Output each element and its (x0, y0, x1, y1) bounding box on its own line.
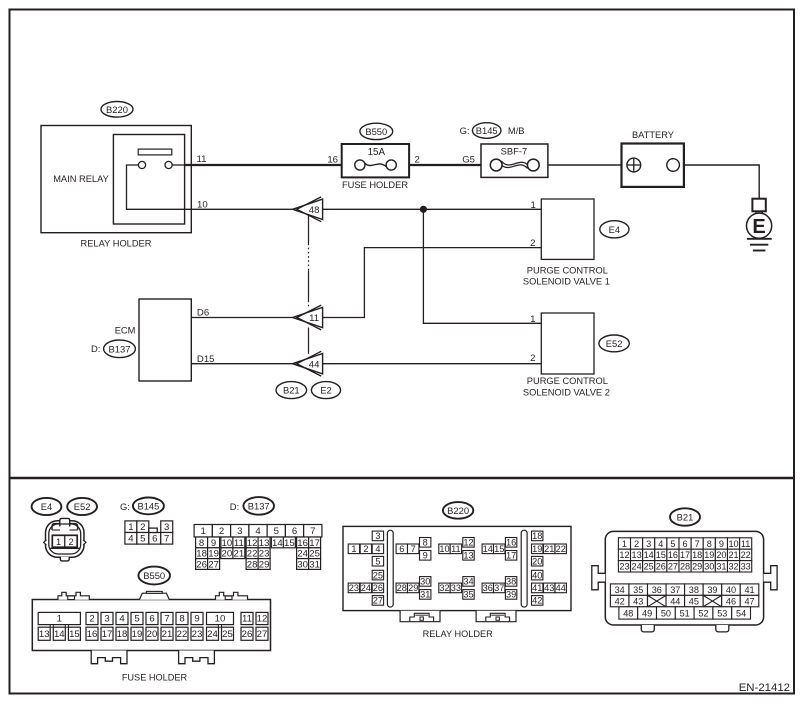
ECM box (139, 299, 191, 381)
svg-text:4: 4 (128, 534, 134, 545)
svg-text:25: 25 (373, 570, 383, 580)
svg-text:24: 24 (361, 583, 371, 593)
connector oval E4 (top) (600, 221, 629, 238)
svg-text:26: 26 (242, 629, 253, 640)
svg-text:1: 1 (201, 526, 206, 537)
svg-text:B137: B137 (109, 343, 131, 354)
svg-text:14: 14 (483, 544, 493, 554)
svg-text:B550: B550 (365, 126, 387, 137)
svg-text:7: 7 (164, 614, 169, 625)
connector label G: B145 (top) (460, 125, 470, 136)
SBF terminal right (527, 159, 539, 171)
svg-text:11: 11 (741, 539, 750, 549)
relay holder bottom tab left (400, 611, 440, 622)
svg-text:12: 12 (257, 614, 268, 625)
slow blow fuse SBF-7 symbol wavy link (500, 161, 528, 168)
connector oval E52 (top) (599, 335, 629, 352)
connector oval B550 (top) (360, 123, 393, 139)
svg-text:29: 29 (408, 583, 418, 593)
svg-text:17: 17 (102, 629, 113, 640)
svg-text:G:: G: (460, 125, 470, 136)
svg-text:26: 26 (656, 562, 666, 572)
svg-text:31: 31 (420, 590, 430, 600)
svg-text:B137: B137 (248, 500, 270, 511)
svg-text:9: 9 (423, 551, 428, 561)
svg-text:41: 41 (532, 583, 542, 593)
svg-text:E52: E52 (74, 501, 91, 512)
svg-text:29: 29 (692, 562, 702, 572)
svg-text:18: 18 (196, 549, 207, 560)
connector label D: B137 (top) (91, 343, 100, 354)
svg-text:48: 48 (623, 608, 633, 618)
svg-text:FUSE HOLDER: FUSE HOLDER (342, 180, 408, 190)
svg-text:2: 2 (634, 539, 639, 549)
main relay inner box (113, 135, 184, 225)
svg-text:19: 19 (704, 550, 714, 560)
svg-text:33: 33 (451, 583, 461, 593)
svg-text:21: 21 (544, 544, 554, 554)
svg-text:13: 13 (463, 551, 473, 561)
purge control solenoid valve 1 box (541, 199, 594, 259)
B220 divider bar left (387, 530, 393, 607)
svg-text:37: 37 (494, 583, 504, 593)
svg-text:27: 27 (257, 629, 268, 640)
svg-text:27: 27 (373, 596, 383, 606)
fuse F1 15A symbol (364, 163, 387, 168)
B21 bottom tab right (716, 625, 729, 632)
svg-text:3: 3 (375, 531, 380, 541)
svg-text:6: 6 (152, 534, 157, 545)
svg-text:16: 16 (327, 155, 338, 166)
svg-text:1: 1 (57, 614, 62, 625)
B21 side bracket right (764, 566, 778, 590)
svg-text:23: 23 (259, 549, 270, 560)
svg-text:47: 47 (744, 596, 754, 606)
svg-text:21: 21 (234, 549, 245, 560)
svg-text:ECM: ECM (115, 325, 136, 335)
svg-text:6: 6 (149, 614, 154, 625)
svg-text:30: 30 (420, 577, 430, 587)
connector oval E2 (top) (311, 382, 340, 399)
svg-text:2: 2 (219, 526, 224, 537)
B220 divider bar right (521, 530, 527, 607)
inline connector arrow 11 (293, 305, 323, 330)
svg-text:15: 15 (656, 550, 666, 560)
battery box (622, 144, 684, 187)
svg-text:7: 7 (411, 544, 416, 554)
svg-text:12: 12 (463, 538, 473, 548)
svg-text:SOLENOID VALVE 2: SOLENOID VALVE 2 (523, 388, 610, 398)
svg-text:18: 18 (692, 550, 702, 560)
svg-text:24: 24 (297, 549, 308, 560)
svg-text:4: 4 (255, 526, 261, 537)
svg-text:22: 22 (247, 549, 258, 560)
svg-text:31: 31 (716, 562, 726, 572)
svg-text:43: 43 (544, 583, 554, 593)
svg-text:1: 1 (128, 522, 133, 533)
svg-text:7: 7 (310, 526, 315, 537)
inline connector arrow 48 (293, 197, 323, 222)
inline connector arrow 44 (293, 351, 323, 376)
svg-text:9: 9 (211, 538, 216, 549)
svg-text:E: E (752, 216, 765, 238)
svg-text:15A: 15A (368, 147, 386, 158)
svg-text:38: 38 (506, 577, 516, 587)
E4/E52 connector face drawing (44, 518, 86, 561)
fuse holder box (342, 144, 409, 177)
svg-text:13: 13 (632, 550, 642, 560)
svg-text:2: 2 (530, 353, 535, 364)
svg-text:20: 20 (532, 557, 542, 567)
svg-text:36: 36 (483, 583, 493, 593)
svg-text:5: 5 (274, 526, 279, 537)
svg-text:E4: E4 (41, 501, 52, 512)
relay holder outer box (41, 126, 191, 233)
svg-text:28: 28 (680, 562, 690, 572)
svg-text:3: 3 (104, 614, 109, 625)
svg-text:4: 4 (375, 544, 380, 554)
svg-text:16: 16 (506, 538, 516, 548)
fuse holder top tab left (58, 592, 89, 599)
svg-text:23: 23 (349, 583, 359, 593)
connector oval B550 (bottom) (138, 567, 170, 585)
wire: junction down to solenoid valve 2 pin 1 (423, 209, 541, 323)
svg-text:29: 29 (259, 559, 270, 570)
svg-text:EN-21412: EN-21412 (739, 682, 790, 694)
battery negative terminal (667, 159, 680, 172)
svg-text:42: 42 (532, 596, 542, 606)
svg-text:E52: E52 (606, 338, 623, 349)
svg-text:6: 6 (683, 539, 688, 549)
svg-text:3: 3 (237, 526, 242, 537)
svg-text:25: 25 (222, 629, 233, 640)
svg-text:E4: E4 (609, 224, 620, 235)
svg-text:10: 10 (728, 539, 738, 549)
svg-text:17: 17 (309, 538, 320, 549)
svg-text:15: 15 (69, 629, 80, 640)
svg-text:25: 25 (309, 549, 320, 560)
connector label G: B145 (bottom) (120, 501, 130, 512)
svg-text:B21: B21 (677, 512, 694, 523)
svg-text:B145: B145 (476, 125, 498, 136)
svg-text:12: 12 (247, 538, 258, 549)
svg-text:34: 34 (615, 585, 625, 595)
svg-text:54: 54 (736, 608, 746, 618)
svg-text:6: 6 (292, 526, 297, 537)
connector oval B220 (bottom) (443, 502, 473, 519)
connector oval B21 (bottom) (670, 508, 700, 525)
svg-text:20: 20 (222, 549, 233, 560)
svg-text:2: 2 (530, 238, 535, 249)
svg-text:19: 19 (532, 544, 542, 554)
B21 bottom tab left (641, 625, 654, 632)
svg-text:24: 24 (207, 629, 218, 640)
svg-text:15: 15 (284, 538, 295, 549)
fuse holder pin cells (38, 612, 268, 640)
svg-text:50: 50 (661, 608, 671, 618)
svg-text:B220: B220 (106, 104, 128, 115)
B21 middle pin grid pins 34-47 (610, 584, 758, 607)
svg-text:BATTERY: BATTERY (632, 130, 674, 140)
svg-text:44: 44 (309, 359, 320, 370)
ground E symbol (747, 199, 772, 251)
connector oval B21 (top) (276, 382, 307, 399)
svg-text:5: 5 (670, 539, 675, 549)
svg-text:14: 14 (54, 629, 65, 640)
svg-text:35: 35 (633, 585, 643, 595)
svg-text:PURGE CONTROL: PURGE CONTROL (527, 376, 608, 386)
svg-text:22: 22 (741, 550, 751, 560)
svg-text:B550: B550 (143, 570, 165, 581)
svg-text:8: 8 (199, 538, 204, 549)
svg-text:13: 13 (39, 629, 50, 640)
svg-text:26: 26 (196, 559, 207, 570)
svg-text:24: 24 (632, 562, 642, 572)
svg-text:17: 17 (680, 550, 690, 560)
relay holder bottom tab right (476, 611, 516, 622)
svg-text:1: 1 (530, 314, 535, 325)
purge control solenoid valve 2 box (541, 313, 594, 374)
svg-text:D:: D: (91, 343, 100, 354)
svg-text:40: 40 (726, 585, 736, 595)
svg-text:MAIN RELAY: MAIN RELAY (53, 174, 109, 184)
svg-text:2: 2 (68, 537, 73, 547)
svg-text:42: 42 (615, 596, 625, 606)
svg-text:8: 8 (179, 614, 184, 625)
svg-text:10: 10 (439, 544, 449, 554)
svg-text:32: 32 (728, 562, 738, 572)
connector oval B220 (top) (101, 102, 133, 118)
svg-text:D:: D: (230, 501, 239, 512)
svg-text:45: 45 (689, 596, 699, 606)
svg-text:48: 48 (309, 205, 320, 216)
svg-text:FUSE HOLDER: FUSE HOLDER (122, 672, 188, 682)
wire: battery to ground corner (684, 165, 759, 199)
wire: main relay pin11 to fuse holder (bold power wire) (172, 164, 185, 166)
fuse holder top tab middle (139, 591, 169, 599)
svg-text:14: 14 (644, 550, 654, 560)
svg-text:16: 16 (668, 550, 678, 560)
fuse holder bottom tab left (91, 651, 127, 664)
svg-text:41: 41 (744, 585, 754, 595)
wire: fuse holder to SBF-7 (bold power wire) (409, 164, 481, 166)
wire: SBF-7 to battery (548, 164, 622, 166)
svg-text:22: 22 (556, 544, 566, 554)
B21 side bracket left (592, 566, 606, 590)
svg-text:25: 25 (644, 562, 654, 572)
svg-text:18: 18 (532, 531, 542, 541)
svg-text:7: 7 (695, 539, 700, 549)
battery positive terminal (627, 158, 641, 172)
svg-text:B145: B145 (137, 500, 159, 511)
relay coil bar (138, 149, 172, 155)
relay contact terminal left (138, 161, 145, 168)
svg-text:11: 11 (309, 313, 319, 324)
svg-text:23: 23 (619, 562, 629, 572)
svg-text:38: 38 (689, 585, 699, 595)
section divider line (10, 477, 795, 480)
svg-text:B220: B220 (447, 505, 469, 516)
svg-text:B21: B21 (283, 385, 300, 396)
svg-text:11: 11 (234, 538, 244, 549)
svg-text:5: 5 (134, 614, 139, 625)
svg-text:10: 10 (222, 538, 233, 549)
svg-text:44: 44 (556, 583, 566, 593)
B21 top pin grid pins 1-33 (618, 538, 751, 572)
svg-text:10: 10 (215, 614, 226, 625)
wire: connector stack vertical 48-11 (part solid part dotted) (308, 216, 310, 244)
connector B137 pin grid (194, 525, 322, 571)
svg-text:49: 49 (642, 608, 652, 618)
connector label D: B137 (bottom) (230, 501, 239, 512)
svg-text:1: 1 (56, 537, 61, 547)
fuse holder bottom tab right (179, 651, 215, 664)
svg-text:16: 16 (297, 538, 308, 549)
svg-text:2: 2 (415, 155, 420, 166)
svg-text:3: 3 (164, 522, 169, 533)
connector B145 pin grid (125, 521, 173, 545)
wire: connector stack vertical 11-44 (308, 328, 310, 354)
relay holder connector body (343, 526, 571, 610)
junction node at valve1 branch (420, 206, 426, 212)
wire: relay pin10 / solenoid valve 1 pin 1 net (191, 208, 541, 210)
svg-text:51: 51 (680, 608, 690, 618)
svg-text:16: 16 (87, 629, 98, 640)
svg-text:44: 44 (670, 596, 680, 606)
svg-text:22: 22 (177, 629, 188, 640)
fuse holder connector body (32, 600, 270, 651)
wire: ECM D6 through connector 11 up to valve 1 pin 2 (191, 248, 541, 318)
svg-text:12: 12 (619, 550, 629, 560)
svg-text:G:: G: (120, 501, 130, 512)
fuse terminal right (386, 160, 396, 170)
svg-text:SBF-7: SBF-7 (501, 146, 528, 157)
svg-text:5: 5 (375, 557, 380, 567)
SBF-7 fuse box (481, 144, 548, 177)
svg-text:G5: G5 (462, 155, 475, 166)
svg-text:4: 4 (658, 539, 663, 549)
svg-text:1: 1 (530, 200, 535, 211)
svg-text:1: 1 (622, 539, 627, 549)
svg-text:19: 19 (208, 549, 219, 560)
svg-text:SOLENOID VALVE 1: SOLENOID VALVE 1 (523, 277, 610, 287)
svg-text:18: 18 (117, 629, 128, 640)
svg-text:31: 31 (309, 559, 320, 570)
svg-text:2: 2 (363, 544, 368, 554)
svg-text:19: 19 (132, 629, 143, 640)
svg-text:D15: D15 (197, 354, 215, 365)
svg-text:32: 32 (439, 583, 449, 593)
svg-text:RELAY HOLDER: RELAY HOLDER (81, 238, 152, 248)
svg-text:33: 33 (741, 562, 751, 572)
label PURGE CONTROL SOLENOID VALVE 1 (523, 265, 610, 286)
wire: ECM D15 through connector 44 to valve 2 pin 2 (191, 363, 541, 365)
svg-text:15: 15 (494, 544, 504, 554)
svg-text:14: 14 (272, 538, 283, 549)
svg-text:9: 9 (719, 539, 724, 549)
svg-text:11: 11 (242, 614, 252, 625)
svg-text:2: 2 (140, 522, 145, 533)
svg-text:28: 28 (247, 559, 258, 570)
svg-text:27: 27 (668, 562, 678, 572)
svg-text:20: 20 (716, 550, 726, 560)
svg-text:46: 46 (726, 596, 736, 606)
svg-text:17: 17 (506, 551, 516, 561)
relay contact terminal right (165, 161, 172, 168)
svg-text:30: 30 (297, 559, 308, 570)
B21 bottom pin row pins 48-54 (619, 607, 751, 619)
svg-text:4: 4 (119, 614, 125, 625)
svg-text:M/B: M/B (508, 125, 525, 136)
svg-text:8: 8 (707, 539, 712, 549)
SBF terminal left (490, 159, 502, 171)
svg-text:39: 39 (506, 590, 516, 600)
svg-text:37: 37 (670, 585, 680, 595)
svg-text:21: 21 (162, 629, 173, 640)
svg-text:26: 26 (373, 583, 383, 593)
svg-text:2: 2 (89, 614, 94, 625)
svg-text:10: 10 (197, 200, 208, 211)
svg-text:39: 39 (707, 585, 717, 595)
svg-text:11: 11 (451, 544, 461, 554)
label PURGE CONTROL SOLENOID VALVE 2 (523, 376, 610, 398)
svg-text:52: 52 (698, 608, 708, 618)
svg-text:43: 43 (633, 596, 643, 606)
relay contact wire L-shape to pin 10 (127, 165, 192, 209)
fuse holder top tab right (216, 592, 248, 599)
svg-text:13: 13 (259, 538, 270, 549)
svg-text:36: 36 (652, 585, 662, 595)
svg-text:53: 53 (717, 608, 727, 618)
svg-text:RELAY HOLDER: RELAY HOLDER (423, 629, 493, 639)
fuse terminal left (355, 160, 365, 170)
B21 connector body (605, 531, 763, 625)
connector oval E4 (bottom) (32, 498, 62, 515)
svg-text:5: 5 (140, 534, 145, 545)
B220 pin cells (372, 531, 383, 541)
svg-text:35: 35 (463, 590, 473, 600)
svg-text:E2: E2 (320, 385, 331, 396)
svg-text:7: 7 (164, 534, 169, 545)
svg-text:1: 1 (351, 544, 356, 554)
svg-text:34: 34 (463, 577, 473, 587)
svg-text:20: 20 (147, 629, 158, 640)
svg-text:3: 3 (646, 539, 651, 549)
svg-text:9: 9 (194, 614, 199, 625)
svg-text:PURGE CONTROL: PURGE CONTROL (527, 265, 608, 275)
svg-text:40: 40 (532, 570, 542, 580)
svg-text:23: 23 (192, 629, 203, 640)
svg-text:8: 8 (423, 538, 428, 548)
svg-text:D6: D6 (197, 307, 209, 318)
svg-text:6: 6 (399, 544, 404, 554)
connector oval E52 (bottom) (67, 498, 97, 515)
svg-text:11: 11 (197, 154, 207, 165)
svg-text:21: 21 (728, 550, 738, 560)
svg-text:27: 27 (208, 559, 219, 570)
E4/E52 pin box pins 1 2 (52, 535, 77, 547)
svg-text:28: 28 (397, 583, 407, 593)
svg-text:30: 30 (704, 562, 714, 572)
